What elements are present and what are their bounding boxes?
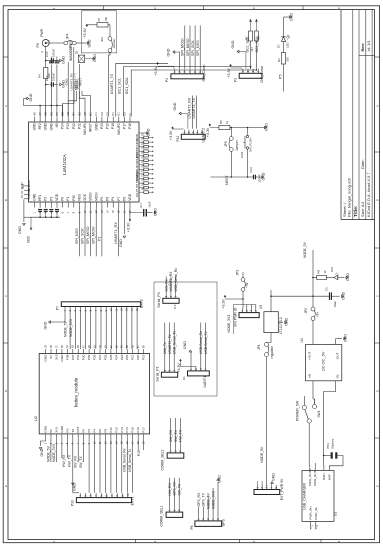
svg-text:-OUT: -OUT bbox=[336, 352, 340, 360]
wire caps to bus bbox=[50, 65, 52, 85]
svg-text:VDD: VDD bbox=[27, 236, 31, 243]
svg-text:SW_TX: SW_TX bbox=[178, 483, 182, 495]
svg-text:JP5: JP5 bbox=[224, 141, 228, 147]
svg-text:+3.3V: +3.3V bbox=[169, 130, 173, 140]
svg-text:USB_Serial_Rx: USB_Serial_Rx bbox=[123, 448, 127, 472]
wire SPI_MOSI up bbox=[184, 26, 186, 69]
node junction bbox=[45, 60, 47, 62]
svg-text:COMM_SEL2: COMM_SEL2 bbox=[161, 449, 165, 470]
svg-text:10: 10 bbox=[109, 308, 113, 312]
svg-text:P22: P22 bbox=[72, 123, 76, 129]
svg-text:P3: P3 bbox=[49, 197, 53, 201]
wire 3v3 to jp3 node bbox=[225, 298, 243, 300]
wire left pins bus bbox=[23, 199, 25, 222]
wire SPI gnd pin2 bbox=[179, 52, 181, 69]
wires EXT2 to module bbox=[69, 311, 71, 349]
resistor R1 bbox=[281, 53, 285, 65]
svg-text:P23: P23 bbox=[66, 123, 70, 129]
connector P2 3V3 PWR IO header bbox=[239, 313, 259, 318]
U5 right pin stubs bbox=[139, 132, 144, 134]
svg-text:JP3: JP3 bbox=[236, 270, 240, 276]
wire JP4 to gnd flag bbox=[76, 42, 87, 44]
svg-text:USB_Serial_Rx: USB_Serial_Rx bbox=[174, 268, 178, 292]
svg-text:GND: GND bbox=[88, 39, 92, 47]
ground flag dcdc bbox=[344, 337, 346, 340]
wire sw1 a stub bbox=[303, 396, 305, 405]
resistor R8 bbox=[317, 275, 327, 279]
svg-text:13: 13 bbox=[125, 308, 129, 312]
wire dcdc +in down bbox=[312, 381, 314, 399]
wire nrst bottom rail bbox=[211, 176, 248, 178]
svg-text:14: 14 bbox=[130, 308, 134, 312]
svg-text:GND: GND bbox=[94, 123, 98, 131]
svg-text:NODE_5V: NODE_5V bbox=[260, 446, 264, 463]
wire rail up stub bbox=[270, 290, 272, 296]
svg-text:15: 15 bbox=[135, 308, 139, 312]
svg-text:RF2: RF2 bbox=[38, 123, 42, 129]
wire NODE_5V long bbox=[266, 357, 268, 486]
svg-text:+3.3V: +3.3V bbox=[83, 28, 87, 38]
ground flag i2c bbox=[237, 50, 239, 53]
svg-text:PWR_OUT-: PWR_OUT- bbox=[313, 470, 317, 486]
svg-text:U1: U1 bbox=[334, 512, 338, 516]
wire serial p1 pins up bbox=[164, 323, 166, 368]
svg-text:P6: P6 bbox=[106, 197, 110, 201]
svg-text:P7: P7 bbox=[135, 188, 139, 192]
svg-text:E: E bbox=[4, 485, 8, 487]
svg-text:C2: C2 bbox=[100, 112, 104, 116]
svg-text:GND: GND bbox=[154, 208, 158, 216]
svg-text:USART1_TX: USART1_TX bbox=[110, 73, 114, 94]
wire module last pin bbox=[137, 438, 139, 450]
svg-text:USB_CHARGER: USB_CHARGER bbox=[302, 483, 306, 510]
svg-text:RF1: RF1 bbox=[38, 194, 42, 200]
svg-text:SPI_NSS: SPI_NSS bbox=[196, 40, 200, 56]
svg-text:R8: R8 bbox=[317, 270, 321, 274]
wire WKUP1 stub bbox=[73, 47, 75, 117]
svg-text:GND: GND bbox=[147, 128, 151, 136]
ground flag C17 bbox=[154, 211, 156, 214]
svg-text:P6: P6 bbox=[98, 429, 102, 433]
node junction bbox=[45, 84, 47, 86]
svg-text:P19: P19 bbox=[142, 354, 146, 360]
ground flag SPI bbox=[173, 51, 175, 54]
svg-text:P20: P20 bbox=[136, 354, 140, 360]
svg-text:NRST: NRST bbox=[89, 123, 93, 132]
jumper JP2 bbox=[311, 307, 315, 311]
wire gps tx up bbox=[202, 507, 204, 516]
svg-text:E1: E1 bbox=[117, 112, 121, 116]
wire rail to LT1117 bbox=[270, 296, 272, 312]
resistor R5 bbox=[219, 125, 230, 129]
svg-text:P14: P14 bbox=[125, 427, 129, 433]
capacitor C1 bbox=[329, 292, 331, 300]
wire SPI_SCK up bbox=[194, 26, 196, 69]
svg-text:SPI_SCK: SPI_SCK bbox=[80, 228, 84, 244]
svg-text:HW_TX: HW_TX bbox=[179, 429, 183, 442]
svg-text:RST: RST bbox=[76, 426, 80, 432]
svg-text:PWR_IN+: PWR_IN+ bbox=[309, 506, 313, 520]
svg-text:P8: P8 bbox=[122, 197, 126, 201]
svg-text:regulator: regulator bbox=[270, 345, 274, 359]
svg-text:NRST: NRST bbox=[225, 175, 229, 185]
svg-text:GND: GND bbox=[60, 354, 64, 362]
svg-text:+3v: +3v bbox=[245, 282, 249, 288]
svg-text:P22: P22 bbox=[125, 354, 129, 360]
wire NRST jog bbox=[82, 91, 91, 117]
svg-text:D: D bbox=[4, 390, 8, 392]
U5 top pin stubs bbox=[34, 117, 36, 122]
wire USART2_TX jog bbox=[68, 91, 76, 117]
svg-text:+3v: +3v bbox=[315, 312, 319, 318]
connector EXT1 header bbox=[76, 498, 131, 503]
wires comm_sel1 up bbox=[169, 478, 171, 508]
wire uart1 rx up bbox=[200, 323, 202, 367]
svg-text:DC-DC_5V: DC-DC_5V bbox=[321, 351, 326, 371]
svg-text:USB-Serial_Rx: USB-Serial_Rx bbox=[199, 331, 203, 354]
svg-text:B: B bbox=[376, 199, 380, 201]
gnd bus below U5 bbox=[30, 216, 60, 218]
wire gps gnd up bbox=[217, 482, 219, 516]
svg-text:SW1: SW1 bbox=[317, 410, 321, 417]
charger bottom pin stubs bbox=[310, 521, 312, 527]
wire LED to gnd bbox=[341, 277, 345, 279]
svg-text:GND: GND bbox=[344, 334, 348, 342]
wire 3v3 to R5 bbox=[210, 127, 219, 129]
connector COMM_SEL1 header bbox=[166, 512, 183, 517]
wire SCL down bbox=[250, 41, 252, 69]
svg-text:VDD: VDD bbox=[128, 193, 132, 200]
svg-text:GND: GND bbox=[271, 473, 275, 481]
svg-text:P8: P8 bbox=[135, 184, 139, 188]
wire sw1 b up bbox=[314, 399, 316, 404]
svg-text:11: 11 bbox=[114, 308, 118, 311]
svg-text:P1: P1 bbox=[66, 197, 70, 201]
svg-text:+3.3V: +3.3V bbox=[206, 127, 210, 137]
ground flag C1 bbox=[342, 295, 344, 298]
svg-text:USART1_TX: USART1_TX bbox=[168, 334, 172, 354]
wire USART2_RX jog bbox=[63, 91, 74, 117]
ground flag extpwr bbox=[271, 482, 274, 484]
svg-text:P7: P7 bbox=[56, 306, 60, 310]
svg-text:1k: 1k bbox=[323, 270, 327, 274]
svg-text:TX: TX bbox=[71, 429, 75, 433]
wire sw1 common down bbox=[308, 423, 310, 465]
jumper JP3 bbox=[241, 278, 245, 282]
svg-text:I2C1_SCL: I2C1_SCL bbox=[246, 37, 250, 53]
wire p2 pins bus bbox=[246, 305, 248, 309]
wire usart2 header tx up bbox=[195, 96, 197, 129]
svg-text:10: 10 bbox=[126, 493, 130, 497]
svg-text:Serial_P1: Serial_P1 bbox=[155, 366, 159, 381]
svg-text:GPS: GPS bbox=[222, 519, 226, 527]
connector UART1 header bbox=[188, 371, 210, 376]
svg-text:D11: D11 bbox=[330, 267, 334, 272]
resistor R4 bbox=[44, 68, 48, 79]
capacitor C2 on pin bbox=[49, 60, 54, 62]
svg-text:E3: E3 bbox=[122, 112, 126, 116]
svg-text:P0: P0 bbox=[61, 197, 65, 201]
svg-text:GND: GND bbox=[183, 341, 187, 349]
svg-text:GND: GND bbox=[72, 483, 76, 491]
svg-text:NODE_5V: NODE_5V bbox=[303, 241, 307, 258]
svg-text:+IN: +IN bbox=[307, 374, 311, 379]
svg-text:U4: U4 bbox=[300, 338, 304, 342]
title block divider lines bbox=[352, 10, 354, 220]
connector Serial_P1 header bbox=[161, 372, 177, 377]
ground flag ext2 bbox=[49, 321, 51, 324]
svg-text:SW_RX: SW_RX bbox=[74, 455, 78, 468]
svg-text:GND: GND bbox=[217, 475, 221, 483]
power flag +3.3V usart2 bbox=[172, 127, 174, 129]
svg-text:USB-Serial_Tx: USB-Serial_Tx bbox=[204, 331, 208, 354]
svg-text:GND: GND bbox=[49, 123, 53, 131]
svg-text:EXT_PWR 5V: EXT_PWR 5V bbox=[280, 478, 284, 500]
svg-text:GND: GND bbox=[173, 102, 177, 110]
svg-text:JT3: JT3 bbox=[173, 304, 177, 309]
svg-text:GND: GND bbox=[119, 239, 123, 247]
svg-text:R5: R5 bbox=[219, 120, 223, 124]
ic U5 LoM102A body bbox=[29, 122, 140, 202]
svg-text:+OUT: +OUT bbox=[307, 352, 311, 360]
wire bat plus bbox=[323, 455, 325, 457]
svg-text:GPS_TX: GPS_TX bbox=[202, 492, 206, 506]
svg-text:VDD: VDD bbox=[55, 193, 59, 200]
jumper JP1 bbox=[264, 342, 268, 346]
svg-text:P2: P2 bbox=[87, 429, 91, 433]
svg-text:100nF: 100nF bbox=[52, 49, 56, 57]
wire R8 to LED bbox=[326, 277, 333, 279]
wire JP2 to dcdc bbox=[312, 321, 314, 345]
svg-text:C16: C16 bbox=[45, 75, 49, 81]
wire LT1117 gnd pin bbox=[278, 321, 283, 323]
connector EXT2 header bbox=[61, 302, 141, 307]
svg-text:P16: P16 bbox=[136, 427, 140, 433]
svg-text:U2: U2 bbox=[33, 416, 38, 421]
svg-text:F1: F1 bbox=[128, 112, 132, 116]
svg-text:U3: U3 bbox=[259, 305, 263, 309]
wire node3v3 stub bbox=[232, 305, 234, 335]
svg-text:P7: P7 bbox=[117, 197, 121, 201]
svg-text:GND: GND bbox=[285, 317, 289, 325]
svg-text:JP2: JP2 bbox=[304, 308, 308, 314]
svg-text:H5: H5 bbox=[55, 123, 59, 127]
wire to SW2 bbox=[247, 128, 249, 136]
svg-text:PWR: PWR bbox=[40, 28, 44, 36]
U5 top gnd bus bbox=[24, 105, 63, 107]
ground flag at C16 bbox=[60, 83, 62, 86]
wire to JP5 bbox=[230, 128, 232, 137]
wire jp3 up stub bbox=[242, 272, 244, 278]
svg-text:R7: R7 bbox=[97, 17, 101, 21]
svg-text:USART2: USART2 bbox=[202, 128, 206, 143]
svg-text:100nF: 100nF bbox=[52, 73, 56, 81]
component D3 small part bbox=[78, 55, 84, 62]
svg-text:HW_RX: HW_RX bbox=[62, 454, 66, 467]
resistor R7 bbox=[97, 23, 108, 27]
svg-text:I2C1_SCL: I2C1_SCL bbox=[117, 78, 121, 94]
capacitor C13 bbox=[248, 176, 254, 178]
svg-text:P6: P6 bbox=[190, 525, 194, 529]
svg-text:10uF: 10uF bbox=[333, 301, 337, 308]
svg-text:SPI_SCK: SPI_SCK bbox=[191, 40, 195, 56]
svg-text:P12: P12 bbox=[114, 427, 118, 433]
svg-text:GND: GND bbox=[167, 48, 171, 56]
wire R5 to gnd flag bbox=[230, 127, 265, 129]
wire to C15 bbox=[46, 60, 50, 62]
svg-text:P0: P0 bbox=[82, 429, 86, 433]
svg-text:D3: D3 bbox=[75, 50, 79, 54]
wire to C17 bbox=[130, 212, 143, 214]
ground flag led d11 bbox=[346, 276, 348, 279]
svg-text:USART2_TX: USART2_TX bbox=[192, 97, 196, 118]
svg-text:P2: P2 bbox=[44, 197, 48, 201]
svg-text:14: 14 bbox=[106, 210, 110, 214]
wire 3v3 to uart1 pin2 bbox=[179, 362, 181, 367]
U5 bottom pin stubs bbox=[34, 202, 36, 208]
svg-text:P38: P38 bbox=[65, 354, 69, 360]
svg-text:GND: GND bbox=[289, 13, 293, 21]
ground flag D3 bbox=[93, 57, 95, 60]
svg-text:GND: GND bbox=[61, 56, 65, 64]
svg-text:D1: D1 bbox=[111, 112, 115, 116]
svg-text:C: C bbox=[376, 295, 380, 297]
svg-text:D1: D1 bbox=[182, 376, 186, 380]
connector P6 GPS header bbox=[195, 521, 222, 527]
svg-text:P9: P9 bbox=[36, 43, 40, 47]
svg-text:A: A bbox=[376, 105, 380, 107]
svg-text:LED: LED bbox=[286, 42, 290, 48]
ic U4 DC-DC body bbox=[306, 345, 342, 381]
svg-text:EXT2: EXT2 bbox=[140, 299, 144, 308]
svg-text:GND: GND bbox=[231, 40, 235, 48]
wire I2C1_SDA run bbox=[131, 69, 256, 117]
ground flag usart2 bbox=[179, 112, 181, 115]
svg-text:JP4: JP4 bbox=[66, 33, 70, 39]
wire D3 to gnd bbox=[85, 58, 93, 60]
svg-text:P29: P29 bbox=[87, 354, 91, 360]
svg-text:NSS: NSS bbox=[78, 193, 82, 200]
power flag +3.3V node bbox=[224, 296, 226, 298]
resistor R2 pullup bbox=[249, 31, 253, 41]
svg-text:B1: B1 bbox=[89, 112, 93, 116]
svg-text:P19: P19 bbox=[106, 123, 110, 129]
wire extpwr stubs bbox=[256, 481, 258, 485]
svg-text:A6: A6 bbox=[32, 112, 36, 116]
svg-text:Jumper: Jumper bbox=[112, 39, 116, 49]
wire P20 stub bbox=[78, 64, 80, 117]
svg-text:WKUP2: WKUP2 bbox=[117, 123, 121, 135]
wire module node3v3 bbox=[55, 438, 57, 462]
svg-text:B4: B4 bbox=[72, 112, 76, 116]
svg-text:SPI_NSS: SPI_NSS bbox=[75, 228, 79, 244]
svg-text:GND: GND bbox=[93, 54, 97, 62]
svg-text:SW_TX: SW_TX bbox=[174, 430, 178, 442]
svg-text:SPI_MISO: SPI_MISO bbox=[186, 38, 190, 56]
svg-text:NODE_5V: NODE_5V bbox=[46, 445, 50, 462]
switch SW1 POWER_SW bbox=[302, 405, 306, 409]
wire SPI_MOSI bbox=[95, 208, 97, 257]
capacitor C15 bbox=[50, 58, 52, 63]
wire module gnd2 to ext1 bbox=[72, 438, 74, 492]
wire gnd to usart2 pin2 bbox=[181, 113, 188, 115]
ground flag gps bbox=[217, 479, 220, 481]
wire WKUP2 jog bbox=[79, 91, 85, 117]
svg-text:+3.3V: +3.3V bbox=[221, 299, 225, 309]
svg-text:P27: P27 bbox=[98, 354, 102, 360]
svg-text:D7: D7 bbox=[276, 44, 280, 48]
svg-text:Id: 1/1: Id: 1/1 bbox=[366, 40, 371, 52]
wire SPI_NSS up bbox=[199, 26, 201, 69]
svg-text:P6: P6 bbox=[135, 193, 139, 197]
svg-text:GND: GND bbox=[44, 321, 48, 329]
svg-text:3V3: 3V3 bbox=[54, 427, 58, 433]
wire jp3 to header bbox=[242, 291, 244, 299]
svg-text:PWR_IN-: PWR_IN- bbox=[314, 507, 318, 520]
svg-text:GND: GND bbox=[264, 123, 268, 131]
wire SW2 down bbox=[247, 149, 249, 177]
wire 3v3 to i2c pin1 bbox=[231, 67, 242, 69]
wire SPI_NSS bbox=[78, 208, 80, 257]
wire module node5v bbox=[50, 438, 52, 462]
wire USART1_TX run bbox=[116, 63, 168, 116]
svg-text:Title:: Title: bbox=[353, 205, 359, 217]
connector P5 EXT_PWR header bbox=[254, 490, 280, 495]
wire gnd pin 14 bbox=[123, 208, 125, 235]
wire to C16 bbox=[46, 84, 50, 86]
svg-text:I2C_Conn: I2C_Conn bbox=[260, 66, 264, 83]
wire JP5 down bbox=[230, 151, 232, 177]
svg-text:Serial_P3: Serial_P3 bbox=[157, 292, 161, 307]
svg-text:keties_module: keties_module bbox=[74, 377, 79, 407]
wire module sw_tx bbox=[83, 438, 85, 462]
svg-text:C13: C13 bbox=[249, 167, 253, 173]
wire P21 stub bbox=[67, 62, 69, 117]
ground flag uart1 bbox=[189, 350, 192, 352]
connector Serial_P3 header bbox=[163, 298, 179, 303]
svg-text:GND: GND bbox=[44, 354, 48, 362]
power flag +3.3V nrst bbox=[209, 124, 211, 126]
switch SW2 SW_PUSH bbox=[246, 135, 248, 137]
svg-text:BAT-: BAT- bbox=[327, 473, 331, 480]
ground flag jack rail bbox=[87, 42, 89, 45]
svg-text:330: 330 bbox=[285, 57, 289, 62]
resistor array U5 right bbox=[144, 136, 149, 139]
power flag +3.3V serial bbox=[179, 360, 181, 362]
jumper JP5 bbox=[229, 137, 233, 141]
power flag +3.3V i2c conn bbox=[230, 65, 232, 67]
power flag +3.3V SPI bbox=[157, 63, 159, 65]
connector P4 SPI header bbox=[171, 74, 204, 79]
svg-text:P13: P13 bbox=[120, 427, 124, 433]
svg-text:P5: P5 bbox=[279, 74, 283, 79]
svg-text:P4: P4 bbox=[165, 78, 169, 82]
svg-text:10k: 10k bbox=[104, 16, 108, 21]
svg-text:P26: P26 bbox=[104, 354, 108, 360]
svg-text:P4: P4 bbox=[93, 429, 97, 433]
svg-text:P20: P20 bbox=[100, 123, 104, 129]
node junction led branch bbox=[312, 277, 314, 279]
svg-text:NODE_5V: NODE_5V bbox=[63, 320, 67, 337]
decoupling caps row bbox=[39, 207, 41, 209]
wire SDA down bbox=[255, 41, 257, 69]
wire module usb serial rx bbox=[126, 438, 128, 492]
ground flag module bottom bbox=[39, 448, 42, 450]
wire SPI_MISO bbox=[90, 208, 92, 257]
power flag +3.3V below U5 bbox=[129, 219, 131, 221]
svg-text:WAKEUP1: WAKEUP1 bbox=[69, 44, 73, 61]
power flag +3.3V sda pullup bbox=[255, 20, 257, 31]
